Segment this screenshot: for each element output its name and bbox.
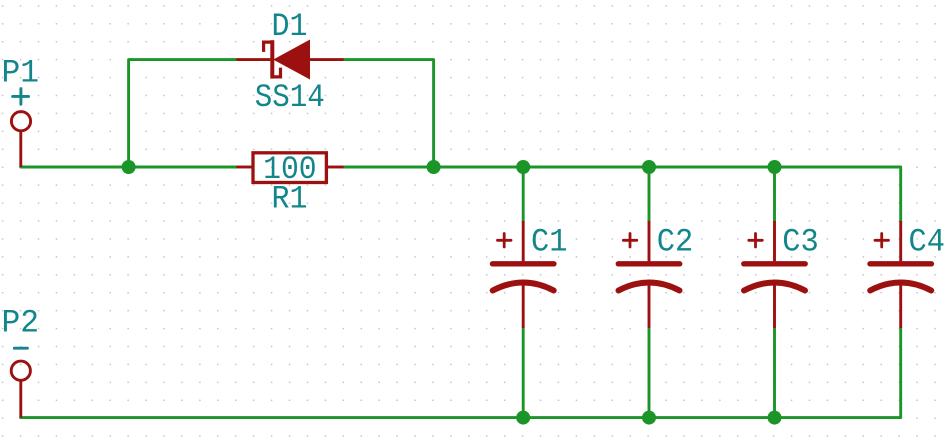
junction bottom C2	[642, 411, 656, 425]
D1 cathode bar with schottky hooks	[264, 42, 281, 77]
R1 left pin	[236, 166, 251, 169]
wire top rail	[21, 166, 237, 169]
connector P2	[11, 361, 30, 418]
capacitor C1	[493, 221, 554, 328]
D1 left pin	[236, 58, 270, 61]
wire C3 bottom drop	[773, 328, 776, 418]
junction bottom C3	[768, 411, 782, 425]
R1 body box	[253, 153, 326, 183]
resistor R1	[236, 153, 343, 183]
capacitor C4	[870, 221, 931, 328]
svg-text:P1: P1	[2, 54, 40, 91]
junction top C2	[642, 160, 656, 174]
capacitor C2	[618, 221, 679, 328]
wire diode branch right riser	[344, 60, 434, 167]
junction top JR	[427, 160, 441, 174]
pin name + of P1	[13, 89, 29, 105]
svg-text:C4: C4	[908, 223, 945, 260]
junction top JL	[122, 160, 136, 174]
R1 right pin	[328, 166, 344, 169]
junction bottom C1	[516, 411, 530, 425]
svg-text:C3: C3	[782, 223, 819, 260]
svg-text:R1: R1	[272, 181, 308, 218]
wire bottom rail	[21, 328, 901, 418]
wire C1 top drop	[522, 167, 525, 221]
junction top C1	[516, 160, 530, 174]
junction top C3	[768, 160, 782, 174]
wire C2 bottom drop	[648, 328, 651, 418]
D1 right pin	[310, 58, 344, 61]
svg-text:C2: C2	[657, 223, 694, 260]
svg-text:P2: P2	[2, 305, 40, 342]
connector P1	[11, 112, 30, 167]
pin name - of P2	[14, 347, 27, 350]
svg-text:C1: C1	[531, 223, 568, 260]
wire C2 top drop	[648, 167, 651, 221]
capacitor C3	[744, 221, 805, 328]
diode D1	[236, 40, 343, 78]
D1 triangle	[274, 40, 309, 78]
svg-text:D1: D1	[272, 8, 308, 45]
wire C3 top drop	[773, 167, 776, 221]
svg-text:SS14: SS14	[255, 79, 325, 116]
wire C1 bottom drop	[522, 328, 525, 418]
wire diode branch left riser	[129, 60, 237, 167]
